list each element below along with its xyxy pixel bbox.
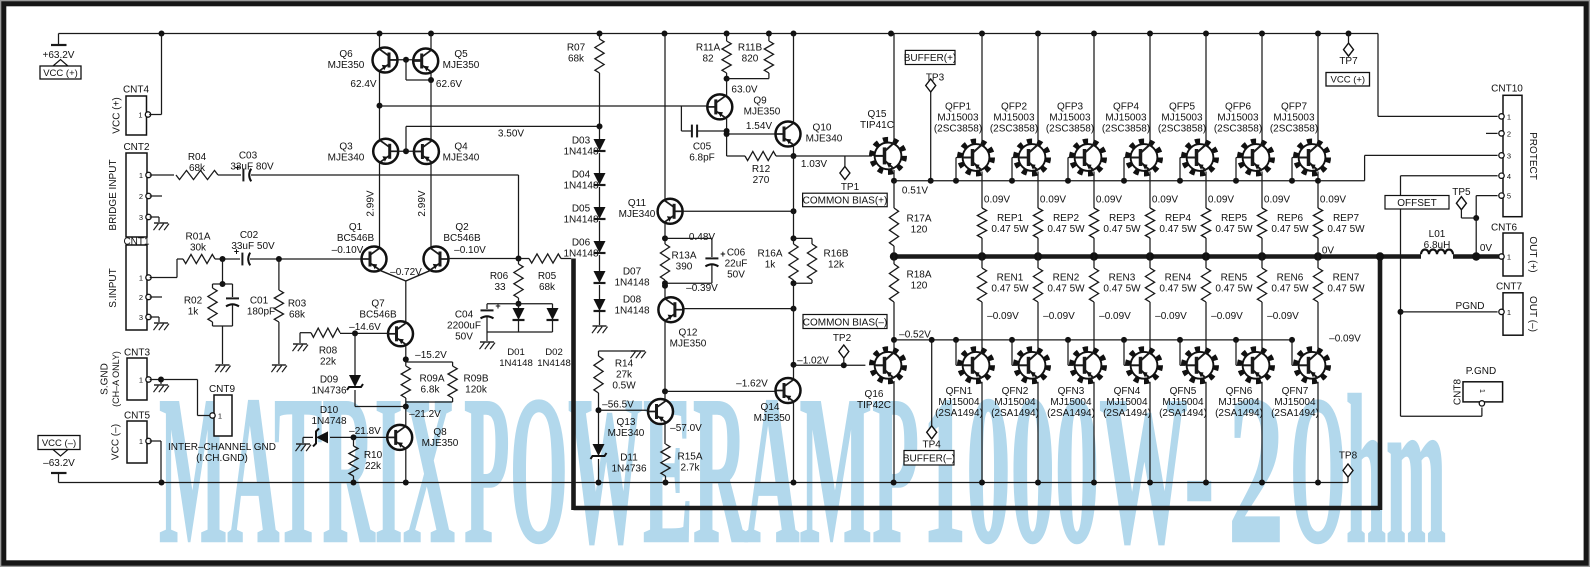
svg-text:180pF: 180pF	[247, 307, 275, 318]
svg-text:C01: C01	[250, 296, 269, 307]
svg-text:Q15: Q15	[868, 109, 887, 120]
svg-text:PGND: PGND	[1456, 301, 1485, 312]
svg-text:QFP3: QFP3	[1057, 102, 1084, 113]
svg-text:MJE350: MJE350	[422, 438, 459, 449]
svg-text:VCC (+): VCC (+)	[43, 68, 78, 79]
svg-text:D10: D10	[320, 405, 339, 416]
svg-text:MJ15004: MJ15004	[938, 397, 980, 408]
svg-text:(2SA1494): (2SA1494)	[1271, 408, 1319, 419]
svg-text:REN6: REN6	[1277, 273, 1304, 284]
svg-text:82: 82	[702, 54, 714, 65]
svg-text:REP4: REP4	[1165, 213, 1192, 224]
svg-text:VCC (+): VCC (+)	[112, 97, 123, 133]
svg-text:1N4148: 1N4148	[614, 306, 649, 317]
svg-text:MJE350: MJE350	[744, 107, 781, 118]
svg-text:0.47 5W: 0.47 5W	[1159, 284, 1197, 295]
svg-text:TP3: TP3	[926, 73, 945, 84]
svg-text:62.6V: 62.6V	[436, 79, 462, 90]
svg-text:1: 1	[139, 171, 143, 180]
svg-text:MJ15003: MJ15003	[1105, 113, 1147, 124]
svg-text:1: 1	[139, 376, 143, 385]
svg-text:0.47 5W: 0.47 5W	[1271, 224, 1309, 235]
svg-text:Q12: Q12	[679, 328, 698, 339]
svg-text:–0.39V: –0.39V	[686, 283, 718, 294]
svg-text:+: +	[495, 301, 500, 311]
svg-text:MJ15003: MJ15003	[993, 113, 1035, 124]
svg-text:R17A: R17A	[906, 214, 931, 225]
svg-text:MJE350: MJE350	[754, 413, 791, 424]
svg-text:D04: D04	[572, 170, 591, 181]
svg-text:Q4: Q4	[454, 142, 468, 153]
svg-text:0.47 5W: 0.47 5W	[1047, 224, 1085, 235]
svg-text:50V: 50V	[455, 332, 473, 343]
svg-text:MJ15003: MJ15003	[1217, 113, 1259, 124]
svg-text:OFFSET: OFFSET	[1397, 198, 1436, 209]
svg-text:33: 33	[494, 282, 506, 293]
svg-text:REN5: REN5	[1221, 273, 1248, 284]
svg-text:6.8uH: 6.8uH	[1424, 240, 1451, 251]
svg-text:VCC (–): VCC (–)	[42, 438, 76, 449]
svg-text:REN4: REN4	[1165, 273, 1192, 284]
svg-text:3: 3	[1507, 152, 1511, 161]
svg-text:R04: R04	[188, 152, 207, 163]
svg-text:CNT5: CNT5	[124, 411, 151, 422]
svg-text:–0.10V: –0.10V	[332, 245, 364, 256]
svg-text:0.47 5W: 0.47 5W	[1103, 224, 1141, 235]
svg-text:TP8: TP8	[1339, 451, 1358, 462]
svg-text:1N4736: 1N4736	[611, 464, 646, 475]
svg-text:120: 120	[911, 225, 928, 236]
svg-text:BC546B: BC546B	[337, 233, 375, 244]
svg-text:D06: D06	[572, 238, 591, 249]
svg-text:Q1: Q1	[349, 222, 363, 233]
svg-text:3.50V: 3.50V	[498, 129, 524, 140]
svg-text:CNT10: CNT10	[1491, 84, 1523, 95]
svg-text:–0.52V: –0.52V	[899, 330, 931, 341]
svg-text:L01: L01	[1429, 229, 1446, 240]
svg-text:OUT (+): OUT (+)	[1527, 236, 1538, 272]
svg-text:QFP7: QFP7	[1281, 102, 1308, 113]
svg-text:1: 1	[1478, 389, 1487, 393]
svg-text:–0.09V: –0.09V	[1329, 334, 1361, 345]
svg-text:1.54V: 1.54V	[746, 121, 772, 132]
svg-text:(CH–A ONLY): (CH–A ONLY)	[111, 351, 121, 407]
svg-text:0.09V: 0.09V	[1040, 195, 1066, 206]
svg-text:2: 2	[139, 293, 143, 302]
svg-text:(2SC3858): (2SC3858)	[934, 124, 982, 135]
svg-text:68k: 68k	[539, 282, 556, 293]
svg-text:R09B: R09B	[463, 374, 488, 385]
svg-text:390: 390	[676, 262, 693, 273]
svg-text:TP7: TP7	[1339, 56, 1358, 67]
svg-text:D02: D02	[545, 347, 563, 358]
svg-text:Q13: Q13	[617, 417, 636, 428]
svg-text:6.8k: 6.8k	[421, 385, 441, 396]
svg-text:REN2: REN2	[1053, 273, 1080, 284]
svg-text:TP5: TP5	[1452, 187, 1471, 198]
svg-text:D08: D08	[623, 295, 642, 306]
svg-text:Q11: Q11	[628, 198, 647, 209]
svg-text:6.8pF: 6.8pF	[689, 153, 715, 164]
svg-text:MJ15004: MJ15004	[1106, 397, 1148, 408]
svg-text:Q7: Q7	[371, 299, 385, 310]
svg-text:MJE350: MJE350	[443, 60, 480, 71]
svg-text:50V: 50V	[727, 270, 745, 281]
svg-text:0.09V: 0.09V	[1096, 195, 1122, 206]
svg-text:AMP: AMP	[744, 352, 919, 567]
svg-text:33uF 50V: 33uF 50V	[231, 241, 275, 252]
svg-text:MJ15004: MJ15004	[1218, 397, 1260, 408]
svg-text:(I.CH.GND): (I.CH.GND)	[196, 453, 248, 464]
svg-text:30k: 30k	[190, 243, 207, 254]
svg-text:1N4148: 1N4148	[614, 278, 649, 289]
svg-text:120: 120	[911, 281, 928, 292]
svg-text:(2SA1494): (2SA1494)	[1103, 408, 1151, 419]
svg-text:2200uF: 2200uF	[447, 321, 481, 332]
svg-text:0.47 5W: 0.47 5W	[1271, 284, 1309, 295]
svg-text:0.09V: 0.09V	[984, 195, 1010, 206]
svg-text:0.47 5W: 0.47 5W	[991, 224, 1029, 235]
svg-text:TIP42C: TIP42C	[857, 400, 891, 411]
svg-text:2: 2	[139, 192, 143, 201]
svg-text:C06: C06	[727, 248, 746, 259]
svg-text:1: 1	[139, 437, 143, 446]
svg-text:–0.09V: –0.09V	[987, 311, 1019, 322]
svg-text:2.7k: 2.7k	[681, 463, 701, 474]
svg-text:R08: R08	[319, 346, 338, 357]
svg-text:S.INPUT: S.INPUT	[108, 268, 119, 307]
svg-text:MJE350: MJE350	[328, 60, 365, 71]
svg-text:1k: 1k	[188, 307, 200, 318]
svg-text:–57.0V: –57.0V	[670, 423, 702, 434]
svg-text:–1.62V: –1.62V	[736, 379, 768, 390]
svg-text:1N4736: 1N4736	[311, 386, 346, 397]
svg-text:C02: C02	[240, 230, 259, 241]
svg-text:BRIDGE INPUT: BRIDGE INPUT	[108, 159, 119, 230]
svg-text:INTER–CHANNEL GND: INTER–CHANNEL GND	[168, 442, 276, 453]
svg-text:1k: 1k	[765, 260, 777, 271]
svg-text:COMMON BIAS(–): COMMON BIAS(–)	[803, 318, 887, 329]
svg-text:R11A: R11A	[696, 43, 721, 54]
svg-text:1: 1	[1507, 113, 1511, 122]
svg-text:(2SA1494): (2SA1494)	[1047, 408, 1095, 419]
svg-text:1: 1	[139, 274, 143, 283]
svg-text:(2SC3858): (2SC3858)	[1046, 124, 1094, 135]
svg-text:2.99V: 2.99V	[366, 190, 377, 216]
svg-text:22k: 22k	[320, 357, 337, 368]
svg-text:–21.2V: –21.2V	[409, 409, 441, 420]
svg-text:CNT2: CNT2	[123, 142, 150, 153]
svg-text:R15A: R15A	[677, 452, 702, 463]
svg-text:BUFFER(+): BUFFER(+)	[904, 53, 957, 64]
svg-text:22uF: 22uF	[725, 259, 748, 270]
svg-text:0.47 5W: 0.47 5W	[1159, 224, 1197, 235]
svg-text:68k: 68k	[289, 310, 306, 321]
svg-text:D03: D03	[572, 136, 591, 147]
svg-text:MJE340: MJE340	[806, 134, 843, 145]
svg-text:Q5: Q5	[454, 49, 468, 60]
svg-text:D07: D07	[623, 267, 642, 278]
svg-text:R02: R02	[184, 296, 203, 307]
svg-text:22k: 22k	[365, 461, 382, 472]
svg-text:Q6: Q6	[339, 49, 353, 60]
svg-text:–0.09V: –0.09V	[1155, 311, 1187, 322]
svg-text:MJ15004: MJ15004	[994, 397, 1036, 408]
svg-text:0.09V: 0.09V	[1152, 195, 1178, 206]
svg-text:R03: R03	[288, 299, 307, 310]
svg-text:Q3: Q3	[339, 142, 353, 153]
svg-text:R11B: R11B	[738, 43, 763, 54]
svg-text:MJ15003: MJ15003	[1049, 113, 1091, 124]
svg-text:1N4148: 1N4148	[563, 249, 598, 260]
svg-text:REP1: REP1	[997, 213, 1024, 224]
svg-text:0.47 5W: 0.47 5W	[1047, 284, 1085, 295]
svg-text:(2SA1494): (2SA1494)	[935, 408, 983, 419]
svg-text:R16A: R16A	[757, 249, 782, 260]
svg-text:Q2: Q2	[455, 222, 469, 233]
svg-text:1: 1	[1507, 253, 1511, 262]
svg-text:4: 4	[1507, 172, 1511, 181]
svg-text:CNT9: CNT9	[209, 384, 236, 395]
svg-text:CNT1: CNT1	[123, 237, 150, 248]
svg-text:–21.8V: –21.8V	[349, 426, 381, 437]
svg-text:QFN4: QFN4	[1114, 386, 1141, 397]
svg-text:R01A: R01A	[185, 232, 210, 243]
svg-text:TP4: TP4	[923, 440, 942, 451]
svg-text:270: 270	[753, 175, 770, 186]
svg-text:D05: D05	[572, 204, 591, 215]
svg-text:POWER: POWER	[464, 352, 748, 567]
svg-text:R16B: R16B	[823, 249, 848, 260]
svg-text:MJ15003: MJ15003	[1273, 113, 1315, 124]
svg-text:0.09V: 0.09V	[1208, 195, 1234, 206]
svg-text:BC546B: BC546B	[359, 310, 397, 321]
svg-text:1: 1	[138, 111, 142, 120]
svg-text:MJ15004: MJ15004	[1274, 397, 1316, 408]
svg-text:MJ15004: MJ15004	[1162, 397, 1204, 408]
svg-text:Q9: Q9	[753, 96, 767, 107]
svg-text:R07: R07	[567, 43, 586, 54]
svg-text:820: 820	[742, 54, 759, 65]
svg-text:68k: 68k	[568, 54, 585, 65]
svg-text:CNT4: CNT4	[123, 85, 150, 96]
svg-text:Q16: Q16	[865, 389, 884, 400]
svg-text:R13A: R13A	[671, 251, 696, 262]
svg-text:CNT7: CNT7	[1496, 282, 1523, 293]
svg-text:CNT3: CNT3	[124, 348, 151, 359]
svg-text:0V: 0V	[1322, 246, 1335, 257]
svg-text:1: 1	[1507, 308, 1511, 317]
svg-text:MJE340: MJE340	[619, 209, 656, 220]
svg-text:C03: C03	[239, 151, 258, 162]
svg-text:1.03V: 1.03V	[801, 159, 827, 170]
svg-text:1N4148: 1N4148	[563, 147, 598, 158]
svg-text:VCC (–): VCC (–)	[111, 424, 122, 460]
svg-text:27k: 27k	[616, 370, 633, 381]
svg-text:(2SC3858): (2SC3858)	[990, 124, 1038, 135]
svg-text:63.0V: 63.0V	[731, 85, 757, 96]
svg-text:–0.09V: –0.09V	[1099, 311, 1131, 322]
svg-text:QFN1: QFN1	[946, 386, 973, 397]
svg-text:QFP4: QFP4	[1113, 102, 1140, 113]
svg-text:MJ15003: MJ15003	[1161, 113, 1203, 124]
svg-text:D09: D09	[320, 375, 339, 386]
svg-text:(2SC3858): (2SC3858)	[1102, 124, 1150, 135]
svg-text:REP5: REP5	[1221, 213, 1248, 224]
svg-text:3: 3	[139, 213, 143, 222]
svg-text:120k: 120k	[465, 385, 488, 396]
svg-text:–14.6V: –14.6V	[349, 322, 381, 333]
svg-text:5: 5	[1507, 192, 1511, 201]
svg-text:62.4V: 62.4V	[350, 79, 376, 90]
svg-text:3: 3	[139, 313, 143, 322]
svg-text:0.51V: 0.51V	[902, 186, 928, 197]
svg-text:R10: R10	[364, 450, 383, 461]
svg-text:QFN3: QFN3	[1058, 386, 1085, 397]
svg-text:(2SA1494): (2SA1494)	[1159, 408, 1207, 419]
svg-text:REP2: REP2	[1053, 213, 1080, 224]
svg-text:–15.2V: –15.2V	[415, 350, 447, 361]
svg-text:COMMON BIAS(+): COMMON BIAS(+)	[803, 196, 888, 207]
svg-text:D11: D11	[620, 453, 638, 464]
svg-text:68k: 68k	[189, 163, 206, 174]
svg-text:0.47 5W: 0.47 5W	[1215, 224, 1253, 235]
svg-text:MJE340: MJE340	[608, 428, 645, 439]
svg-text:MJE340: MJE340	[443, 153, 480, 164]
svg-text:0.09V: 0.09V	[1320, 195, 1346, 206]
svg-text:1N4148: 1N4148	[563, 181, 598, 192]
svg-text:Ohm: Ohm	[1290, 352, 1446, 567]
svg-text:OUT (–): OUT (–)	[1527, 296, 1538, 332]
svg-text:0.47 5W: 0.47 5W	[1215, 284, 1253, 295]
svg-text:P.GND: P.GND	[1466, 366, 1496, 377]
svg-text:MJE350: MJE350	[670, 339, 707, 350]
svg-text:0.47 5W: 0.47 5W	[1327, 224, 1365, 235]
svg-text:–0.72V: –0.72V	[390, 267, 422, 278]
svg-text:CNT6: CNT6	[1491, 223, 1518, 234]
svg-text:–0.10V: –0.10V	[454, 245, 486, 256]
svg-text:0.47 5W: 0.47 5W	[1327, 284, 1365, 295]
svg-text:(2SC3858): (2SC3858)	[1158, 124, 1206, 135]
svg-text:TP1: TP1	[841, 182, 860, 193]
svg-text:–0.09V: –0.09V	[1043, 311, 1075, 322]
svg-text:C04: C04	[455, 310, 474, 321]
svg-text:2: 2	[1507, 130, 1511, 139]
svg-text:PROTECT: PROTECT	[1527, 132, 1538, 180]
svg-text:QFP2: QFP2	[1001, 102, 1028, 113]
svg-text:–0.09V: –0.09V	[1211, 311, 1243, 322]
svg-text:QFN7: QFN7	[1282, 386, 1309, 397]
svg-text:VCC (+): VCC (+)	[1331, 75, 1366, 86]
svg-text:MJ15004: MJ15004	[1050, 397, 1092, 408]
svg-text:QFN2: QFN2	[1002, 386, 1029, 397]
svg-text:+63.2V: +63.2V	[43, 50, 75, 61]
svg-text:QFP1: QFP1	[945, 102, 972, 113]
svg-text:1N4148: 1N4148	[499, 358, 533, 369]
svg-text:2.99V: 2.99V	[417, 190, 428, 216]
svg-text:Q8: Q8	[433, 427, 447, 438]
svg-text:–1.02V: –1.02V	[797, 356, 829, 367]
svg-text:–56.5V: –56.5V	[602, 400, 634, 411]
svg-text:0V: 0V	[1480, 243, 1493, 254]
svg-text:–63.2V: –63.2V	[43, 458, 75, 469]
svg-text:–0.09V: –0.09V	[1267, 311, 1299, 322]
svg-text:TP2: TP2	[833, 333, 852, 344]
svg-text:0.09V: 0.09V	[1264, 195, 1290, 206]
svg-text:(2SC3858): (2SC3858)	[1270, 124, 1318, 135]
svg-text:S.GND: S.GND	[100, 363, 111, 395]
svg-text:1N4148: 1N4148	[563, 215, 598, 226]
svg-text:REN7: REN7	[1333, 273, 1360, 284]
svg-text:R14: R14	[615, 359, 634, 370]
svg-text:QFP6: QFP6	[1225, 102, 1252, 113]
svg-text:R12: R12	[752, 164, 771, 175]
svg-text:1: 1	[218, 412, 222, 421]
svg-text:0.47 5W: 0.47 5W	[1103, 284, 1141, 295]
svg-text:QFP5: QFP5	[1169, 102, 1196, 113]
svg-text:QFN5: QFN5	[1170, 386, 1197, 397]
svg-text:Q10: Q10	[813, 123, 832, 134]
svg-text:REP7: REP7	[1333, 213, 1360, 224]
svg-text:REN3: REN3	[1109, 273, 1136, 284]
svg-text:33uF 80V: 33uF 80V	[230, 162, 274, 173]
svg-text:(2SC3858): (2SC3858)	[1214, 124, 1262, 135]
svg-text:0.5W: 0.5W	[612, 381, 636, 392]
svg-text:QFN6: QFN6	[1226, 386, 1253, 397]
svg-text:(2SA1494): (2SA1494)	[991, 408, 1039, 419]
svg-text:REP6: REP6	[1277, 213, 1304, 224]
svg-text:1N4148: 1N4148	[537, 358, 571, 369]
svg-text:BC546B: BC546B	[443, 233, 481, 244]
svg-text:D01: D01	[507, 347, 525, 358]
svg-text:C05: C05	[693, 142, 712, 153]
svg-text:MJ15003: MJ15003	[937, 113, 979, 124]
svg-text:1000W-: 1000W-	[922, 352, 1214, 567]
svg-text:REP3: REP3	[1109, 213, 1136, 224]
svg-text:R18A: R18A	[906, 270, 931, 281]
svg-text:MJE340: MJE340	[328, 153, 365, 164]
svg-text:TIP41C: TIP41C	[860, 120, 894, 131]
svg-text:Q14: Q14	[761, 402, 780, 413]
svg-text:BUFFER(–): BUFFER(–)	[903, 454, 955, 465]
svg-text:12k: 12k	[828, 260, 845, 271]
svg-text:REN1: REN1	[997, 273, 1024, 284]
svg-text:0.47 5W: 0.47 5W	[991, 284, 1029, 295]
svg-text:(2SA1494): (2SA1494)	[1215, 408, 1263, 419]
svg-text:R06: R06	[490, 271, 509, 282]
svg-text:R05: R05	[538, 271, 557, 282]
svg-text:CNT8: CNT8	[1453, 379, 1464, 406]
svg-text:R09A: R09A	[419, 374, 444, 385]
svg-text:1N4748: 1N4748	[311, 416, 346, 427]
